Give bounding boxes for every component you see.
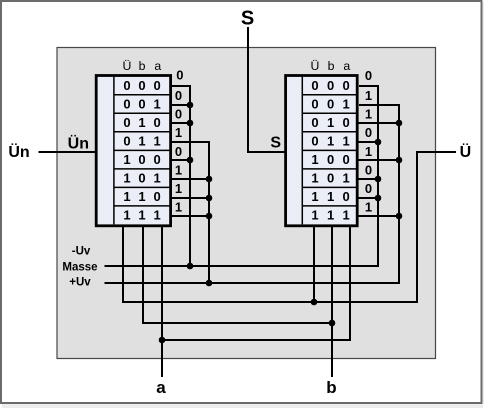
U1 output value boxes [175,88,182,215]
svg-text:0: 0 [327,152,334,167]
svg-text:0: 0 [123,133,130,148]
node: junction net a [159,337,166,344]
wire: Masse rail with right block 0-bus [105,86,379,266]
svg-text:Ü: Ü [311,59,320,73]
svg-text:0: 0 [123,115,130,130]
U1 header column labels [123,59,162,73]
svg-text:0: 0 [343,115,350,130]
svg-text:1: 1 [154,133,161,148]
svg-text:0: 0 [311,96,318,111]
svg-text:Ü: Ü [460,142,472,161]
svg-text:0: 0 [154,189,161,204]
svg-text:1: 1 [365,88,372,103]
wire: right block row5 stub to 1-bus [358,159,399,161]
svg-text:1: 1 [123,152,130,167]
svg-text:1: 1 [327,207,334,222]
svg-text:1: 1 [327,133,334,148]
node: right row7 stub junction [375,195,382,202]
U2 header column labels [311,59,351,73]
wire: net S (input S vertical and into right block) [248,27,285,152]
svg-text:1: 1 [123,170,130,185]
U2 output value boxes [365,88,372,215]
svg-text:0: 0 [327,96,334,111]
svg-text:0: 0 [327,170,334,185]
wire: net U-carry (left col U down, bottom rail, up right side, out to U label) [123,152,456,302]
node: row3 stub junction [187,120,194,127]
wire: left block row2 stub to 0-bus [170,104,190,106]
svg-text:1: 1 [138,207,145,222]
wire: +Uv rail with right block 1-bus [105,105,400,283]
node: right row6 stub junction [375,176,382,183]
svg-text:0: 0 [138,152,145,167]
svg-text:0: 0 [311,115,318,130]
svg-text:a: a [343,59,350,73]
node: right row4 stub junction [375,139,382,146]
svg-text:Ü: Ü [123,59,132,73]
svg-text:-Uv: -Uv [72,246,91,258]
wire: right block col U down to U-carry rail [313,226,315,302]
svg-text:0: 0 [123,96,130,111]
svg-text:1: 1 [311,207,318,222]
svg-text:1: 1 [365,144,372,159]
wire: left block row5 stub to 0-bus [170,159,190,161]
svg-text:0: 0 [138,78,145,93]
svg-text:0: 0 [175,88,182,103]
wire: right block row7 stub to 0-bus [358,197,378,199]
svg-text:0: 0 [365,68,372,83]
svg-text:0: 0 [175,144,182,159]
svg-text:1: 1 [365,200,372,215]
wire: net Un input lead [39,151,98,153]
svg-text:0: 0 [123,78,130,93]
svg-text:b: b [326,378,336,397]
svg-text:Ün: Ün [68,134,89,153]
svg-text:0: 0 [154,78,161,93]
svg-text:1: 1 [311,152,318,167]
wire: left block 1-bus to +Uv rail [170,142,209,283]
wire: right block col b down through junction to terminal b [331,226,333,377]
svg-text:1: 1 [343,133,350,148]
svg-text:1: 1 [154,170,161,185]
node: right row8 stub junction [396,213,403,220]
svg-text:0: 0 [327,78,334,93]
svg-text:0: 0 [154,115,161,130]
svg-text:Ün: Ün [8,142,29,161]
wire: right block row6 stub to 0-bus [358,178,378,180]
svg-text:1: 1 [138,115,145,130]
svg-text:b: b [139,59,146,73]
svg-text:0: 0 [175,107,182,122]
svg-text:1: 1 [123,189,130,204]
wire: net b (left col b down and rail to right) [143,226,332,323]
wire: right block row4 stub to 0-bus [358,141,378,143]
wire: left block row8 stub to 1-bus [170,215,209,217]
svg-text:1: 1 [138,133,145,148]
U2 truth table rows [311,78,349,223]
svg-text:Masse: Masse [62,261,97,273]
svg-text:+Uv: +Uv [69,276,91,288]
svg-text:0: 0 [311,78,318,93]
U1 truth table rows [123,78,160,223]
svg-text:1: 1 [175,200,182,215]
node: row5 stub junction [187,157,194,164]
svg-text:1: 1 [327,189,334,204]
svg-text:0: 0 [138,96,145,111]
svg-text:b: b [328,59,335,73]
svg-text:1: 1 [175,125,182,140]
node: right row5 stub junction [396,157,403,164]
node: row2 stub junction [187,102,194,109]
node: row7 stub junction [206,195,213,202]
svg-text:1: 1 [311,189,318,204]
node: right row3 stub junction [396,120,403,127]
svg-text:1: 1 [154,207,161,222]
svg-text:0: 0 [176,68,183,83]
svg-text:0: 0 [365,181,372,196]
truth table block U1 (Un carry-out table) [96,76,170,226]
node: row8 stub junction [206,213,213,220]
truth table block U2 (S sum table) [286,76,358,226]
wire: left block row6 stub to 1-bus [170,178,209,180]
svg-text:1: 1 [365,107,372,122]
svg-text:a: a [154,59,161,73]
node: left 0-bus on Masse rail [187,263,194,270]
svg-text:0: 0 [343,78,350,93]
svg-text:0: 0 [343,189,350,204]
wire: left block 0-bus to Masse rail [170,86,190,266]
svg-text:a: a [156,378,166,397]
svg-text:1: 1 [343,207,350,222]
svg-text:1: 1 [175,162,182,177]
svg-text:0: 0 [365,125,372,140]
node: left 1-bus on +Uv rail [206,280,213,287]
svg-text:1: 1 [138,189,145,204]
svg-text:S: S [241,8,254,30]
svg-text:0: 0 [343,152,350,167]
svg-text:1: 1 [327,115,334,130]
svg-text:0: 0 [365,162,372,177]
svg-text:0: 0 [311,133,318,148]
node: junction right col U on U-carry rail [311,299,318,306]
svg-text:S: S [270,135,281,152]
wire: right block row3 stub to 1-bus [358,122,399,124]
svg-text:1: 1 [343,96,350,111]
wire: left block row3 stub to 0-bus [170,122,190,124]
svg-text:0: 0 [154,152,161,167]
node: junction net b [329,320,336,327]
node: row6 stub junction [206,176,213,183]
svg-text:1: 1 [311,170,318,185]
svg-text:0: 0 [138,170,145,185]
wire: right block row8 stub to 1-bus [358,215,399,217]
svg-text:1: 1 [154,96,161,111]
svg-text:1: 1 [123,207,130,222]
svg-text:1: 1 [343,170,350,185]
wire: left block row7 stub to 1-bus [170,197,209,199]
svg-text:1: 1 [175,181,182,196]
wire: left col a down through junction to terminal a [161,226,163,377]
wire: net a (right col a down and rail to left) [162,226,350,340]
gray circuit panel [57,48,436,359]
